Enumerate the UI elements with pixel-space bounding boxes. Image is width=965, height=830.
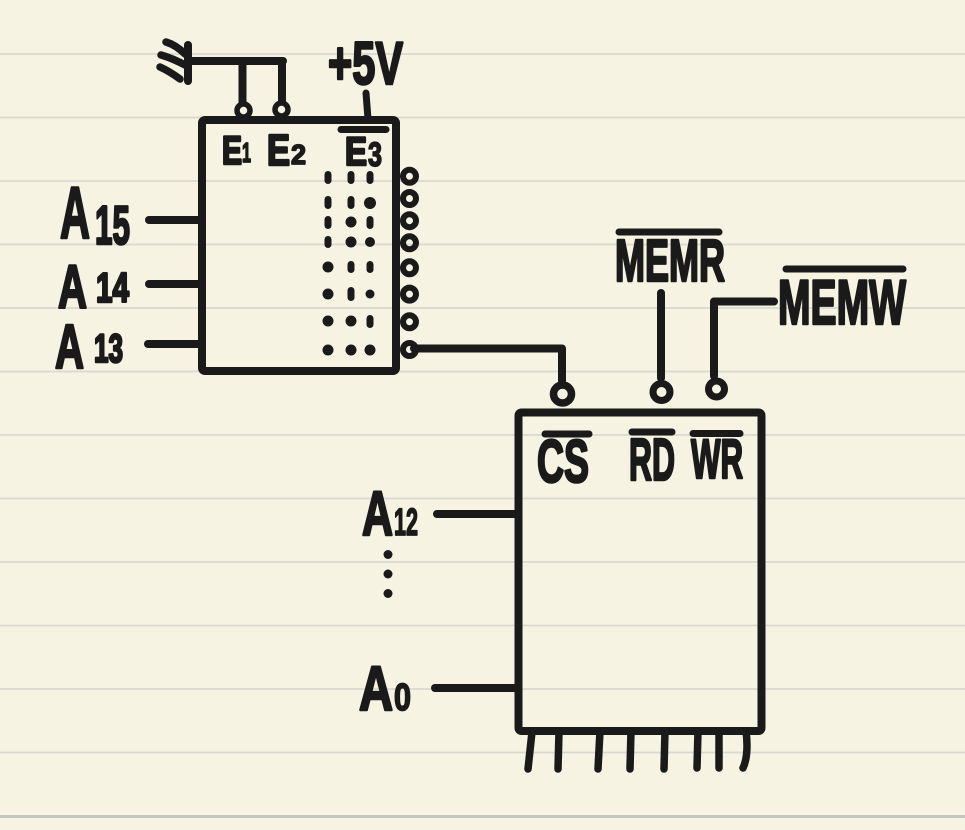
svg-text:0: 0 (394, 677, 411, 719)
svg-text:A: A (58, 253, 87, 321)
svg-text:A: A (60, 173, 90, 254)
svg-text:WR: WR (691, 427, 743, 490)
svg-text:RD: RD (629, 427, 675, 493)
svg-text:2: 2 (291, 139, 306, 170)
svg-text:E: E (222, 129, 242, 173)
svg-text:A: A (359, 654, 393, 724)
svg-text:13: 13 (94, 327, 123, 371)
svg-text:+5V: +5V (328, 30, 403, 97)
svg-text:A: A (362, 479, 393, 549)
svg-text:MEMR: MEMR (615, 228, 725, 294)
svg-text:MEMW: MEMW (778, 268, 906, 338)
svg-text:14: 14 (96, 264, 129, 311)
svg-text:12: 12 (394, 502, 418, 544)
svg-text:1: 1 (242, 137, 251, 168)
svg-text:15: 15 (95, 194, 130, 256)
svg-text:3: 3 (368, 136, 382, 174)
svg-text:CS: CS (537, 428, 589, 495)
svg-text:A: A (55, 313, 84, 382)
svg-text:E: E (345, 130, 367, 174)
svg-text:E: E (267, 126, 290, 175)
